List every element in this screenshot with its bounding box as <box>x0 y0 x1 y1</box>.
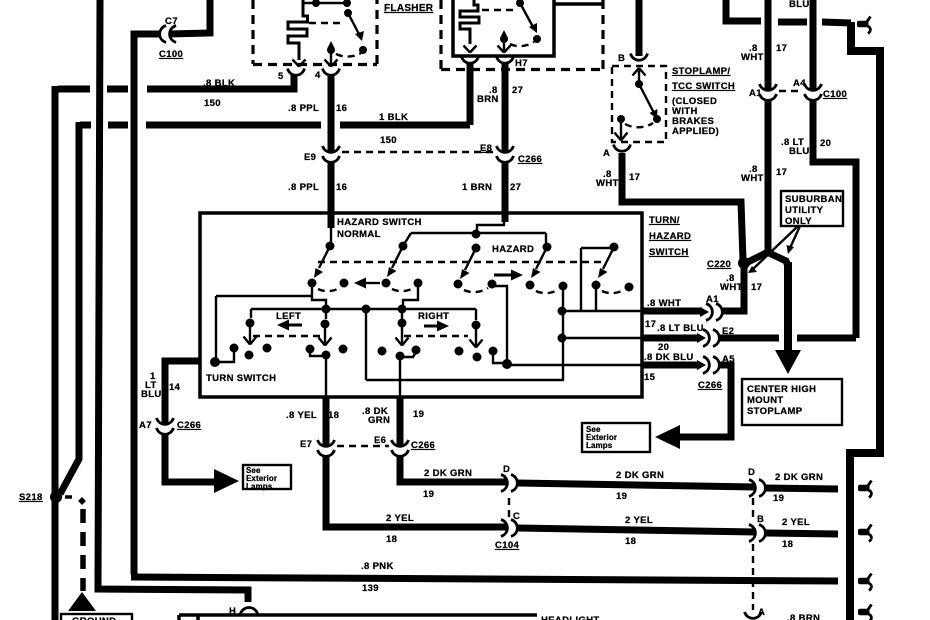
wire .8 LT BLU x=813 from top down, elbow right, down to E2 junction <box>810 0 817 91</box>
wire to B from top <box>636 0 643 56</box>
wire 1 BRN below E8 into switch box <box>502 163 509 214</box>
svg-text:C104: C104 <box>495 540 519 551</box>
svg-text:B: B <box>757 514 764 525</box>
wire L3 vertical x=101 from top to elbow at y=586 then to H drop <box>98 0 248 602</box>
turn pole L pivot dot <box>246 319 255 328</box>
node dot flasher1 bus left <box>312 0 320 7</box>
pole5 pivot dot P6 <box>610 243 619 252</box>
wire 2 DK GRN middle <box>518 483 756 487</box>
wire L2 vertical from 1 BLK elbow down, angling into S218 <box>60 122 79 494</box>
turn dashed row left <box>253 335 321 337</box>
svg-text:A7: A7 <box>139 420 152 431</box>
wire .8 BLK horizontal run y=88 <box>58 86 90 93</box>
svg-text:B: B <box>618 53 625 64</box>
big arrow down to CHMSL <box>775 350 801 374</box>
turn pole C arrow blade <box>319 328 332 346</box>
connector H into bottom box <box>240 608 258 616</box>
svg-text:C266: C266 <box>518 154 542 165</box>
wire A1 to C220 drop <box>723 308 744 315</box>
pole2 dashed arc to C3 <box>392 287 415 291</box>
svg-text:WHT: WHT <box>741 52 764 63</box>
svg-text:18: 18 <box>328 410 339 421</box>
pole4 riser elbow <box>545 233 547 245</box>
junction dot left exit <box>210 357 220 367</box>
svg-text:19: 19 <box>616 491 627 502</box>
pivot dot stoplamp <box>635 80 643 88</box>
pole2 blade <box>392 246 403 268</box>
turn pole R riser <box>401 309 403 319</box>
turn pole RR tip dot <box>473 353 482 362</box>
svg-text:139: 139 <box>362 583 379 594</box>
svg-text:HAZARD: HAZARD <box>492 244 534 255</box>
svg-text:WHT: WHT <box>741 173 764 184</box>
connector A4 <box>805 84 822 100</box>
wire E6 drop from tip through box bottom <box>399 356 401 397</box>
flasher2 element <box>460 0 479 44</box>
svg-text:17: 17 <box>776 43 787 54</box>
dashed link E9-E8 <box>342 151 494 153</box>
wire E7 down elbow right = 2 YEL <box>326 457 508 527</box>
BRN entry stub into box <box>502 214 509 222</box>
svg-text:HAZARD: HAZARD <box>649 231 691 242</box>
svg-text:C7: C7 <box>165 16 178 27</box>
off-page hook BRN (partial) <box>858 605 872 620</box>
svg-text:C100: C100 <box>159 49 183 60</box>
connector C / C104 <box>501 520 517 537</box>
wire A5 elbow down to See Exterior Lamps arrow <box>680 365 731 437</box>
turn pole R pivot dot <box>398 319 407 328</box>
wire C3 drop elbow to rail B at x=402 <box>403 283 418 309</box>
wire flasher1 top bus <box>304 2 347 4</box>
wire C8 drop to WHT exit line <box>595 285 597 311</box>
wire .8 PNK from L4 elbow to right <box>131 577 838 581</box>
pole1 dashed arc <box>318 287 341 291</box>
contact dot C2 <box>340 279 349 288</box>
wire C5 elbow to J3 <box>492 284 507 364</box>
pole5 riser down to J1 <box>580 248 582 311</box>
svg-text:18: 18 <box>625 536 636 547</box>
wire J1 to right exit .8 WHT <box>562 310 641 312</box>
svg-text:27: 27 <box>512 85 523 96</box>
lower pivot dot stoplamp <box>617 115 625 123</box>
svg-text:S218: S218 <box>19 492 43 503</box>
svg-text:C: C <box>513 511 520 522</box>
wire big CHMSL feed down <box>784 262 792 352</box>
svg-text:E6: E6 <box>374 435 386 446</box>
svg-text:C266: C266 <box>411 440 435 451</box>
contact dot C9 <box>625 283 634 292</box>
flasher element (heater coil) <box>288 0 308 60</box>
left pin lead open arrow <box>464 46 477 53</box>
pole1 pivot dot P1 <box>326 242 335 251</box>
svg-text:D: D <box>503 464 510 475</box>
connector B <box>749 525 765 542</box>
pointer arrow 2 from box to wire below C220 <box>753 226 798 269</box>
svg-text:2 DK GRN: 2 DK GRN <box>424 468 472 479</box>
svg-text:5: 5 <box>278 71 284 82</box>
svg-text:C220: C220 <box>707 259 731 270</box>
down arrow to A <box>615 119 628 141</box>
off-page hook PNK <box>858 574 872 591</box>
pole2 pivot dot P2 <box>399 242 408 251</box>
svg-text:19: 19 <box>773 493 784 504</box>
wire E2 exit <box>641 335 699 342</box>
junction dot J3 <box>502 359 512 369</box>
svg-text:17: 17 <box>776 167 787 178</box>
flasher box (dashed) <box>253 0 377 65</box>
pole1 contact dot C1 <box>308 279 317 288</box>
See Exterior Lamps box (right) <box>582 423 650 452</box>
wire from A down then right to C220 <box>622 153 743 260</box>
pole3 dashed arc <box>464 288 488 292</box>
pin 5 connector <box>288 69 305 76</box>
wire x=768 below A1 down to jog <box>765 101 772 247</box>
turn pole R tip dot <box>396 352 405 361</box>
junction dot J1 <box>558 307 567 316</box>
hazard dashed row line <box>318 261 605 263</box>
turn pole L right contact dot <box>263 344 272 353</box>
svg-text:C266: C266 <box>698 380 722 391</box>
wire J3 to right exit A5 <box>507 364 641 366</box>
rail B junction dot x=366 <box>362 305 371 314</box>
wire 1 BLK horizontal run y=123 <box>80 122 91 129</box>
svg-text:19: 19 <box>423 489 434 500</box>
wire x=366 drop to bottom elbow <box>365 309 367 380</box>
turn pole L arrow blade <box>244 327 257 345</box>
turn pole L left contact dot <box>230 344 239 353</box>
wire 2 DK GRN right <box>766 488 838 489</box>
svg-text:.8 WHT: .8 WHT <box>647 298 681 309</box>
svg-text:Lamps: Lamps <box>586 441 613 450</box>
wire stub from box left edge <box>165 361 200 425</box>
wire stub top right of flasher2 <box>554 2 603 6</box>
connector E8 / C266 <box>497 146 514 162</box>
contact dot C5 <box>488 280 497 289</box>
wire L1 vertical from .8 BLK elbow down through S218 to bottom <box>52 86 59 620</box>
pin A connector <box>614 145 631 152</box>
rail A from left vertical <box>216 295 312 297</box>
svg-text:20: 20 <box>820 138 831 149</box>
svg-text:HAZARD SWITCH: HAZARD SWITCH <box>337 217 422 228</box>
svg-text:150: 150 <box>204 98 221 109</box>
turn pole RR pivot dot <box>472 321 481 330</box>
connector C7 / C100 <box>160 26 176 43</box>
svg-text:15: 15 <box>644 372 656 383</box>
turn pole RR arrow blade <box>470 329 483 348</box>
turn pole C right contact dot <box>339 345 348 354</box>
contact dot stoplamp <box>653 115 661 123</box>
pole4 blade <box>536 247 547 269</box>
svg-text:.8 PNK: .8 PNK <box>361 561 394 572</box>
svg-text:4: 4 <box>315 70 321 81</box>
svg-text:Lamps: Lamps <box>246 482 273 491</box>
svg-text:WHT: WHT <box>596 178 619 189</box>
svg-text:RIGHT: RIGHT <box>418 311 449 322</box>
pivot return dot flasher2 + up tick <box>500 35 508 43</box>
svg-text:TURN SWITCH: TURN SWITCH <box>206 373 276 384</box>
svg-text:D: D <box>748 467 755 478</box>
svg-text:2 YEL: 2 YEL <box>782 517 810 528</box>
stoplamp box (dashed) <box>612 66 666 142</box>
turn pole L riser <box>250 309 252 318</box>
connector D (left) <box>501 475 517 492</box>
H7 pin lead + open arrow <box>498 42 511 53</box>
svg-text:16: 16 <box>336 103 347 114</box>
wire 2 YEL middle <box>518 528 756 532</box>
dashed link A1-A4 <box>779 90 802 92</box>
switch blade flasher2 <box>520 3 533 27</box>
connector A1 (top) <box>760 84 777 100</box>
svg-text:18: 18 <box>386 534 397 545</box>
up arrow inside stoplamp box <box>633 68 646 84</box>
pole2 riser diag <box>403 233 411 246</box>
turn pole R left contact dot <box>378 347 387 356</box>
pole4 contact dot C6 <box>526 281 535 290</box>
wire jog from x=768 into C220 and CHMSL branch <box>748 244 768 262</box>
pivot return dot flasher1 + up tick <box>327 46 335 54</box>
svg-text:GRN: GRN <box>368 415 390 426</box>
svg-text:2 YEL: 2 YEL <box>386 513 414 524</box>
pole2 blade end dot <box>382 279 391 288</box>
svg-text:2 YEL: 2 YEL <box>625 515 653 526</box>
splice S218 <box>50 491 62 503</box>
svg-text:E8: E8 <box>480 143 492 154</box>
dashed arc stoplamp <box>625 123 653 127</box>
connector D (right) <box>749 480 765 497</box>
svg-text:27: 27 <box>510 182 521 193</box>
svg-text:UTILITY: UTILITY <box>785 205 824 216</box>
left vertical inside box <box>215 296 217 362</box>
svg-text:STOPLAMP: STOPLAMP <box>747 406 803 417</box>
svg-text:14: 14 <box>169 382 181 393</box>
svg-text:.8 LT BLU: .8 LT BLU <box>657 323 704 334</box>
svg-text:16: 16 <box>336 182 347 193</box>
svg-text:H7: H7 <box>515 58 528 69</box>
pole4 pivot dot P5 <box>543 243 552 252</box>
wire L5 from top down to C7 elbow <box>169 0 210 34</box>
junction dot P3 <box>472 230 481 239</box>
junction dot J2 <box>558 334 567 343</box>
wire pin5 elbow to .8 BLK run <box>291 75 294 89</box>
wire C220 down then left to A1 connector <box>726 263 744 311</box>
svg-text:APPLIED): APPLIED) <box>672 126 719 137</box>
CENTER HIGH MOUNT STOPLAMP box <box>742 379 842 425</box>
connector A7 / C266 <box>157 418 174 434</box>
turn pole R right contact dot + link <box>412 346 421 355</box>
hazard right arrow <box>494 274 512 277</box>
turn pole C left contact dot + link <box>306 345 315 354</box>
svg-text:17: 17 <box>629 172 640 183</box>
contact dot flasher1 <box>359 46 367 54</box>
svg-text:17: 17 <box>751 282 762 293</box>
svg-text:A1: A1 <box>749 88 762 99</box>
svg-text:A1: A1 <box>706 294 719 305</box>
pole3 pivot dot P4 <box>472 244 481 253</box>
pole3 contact dot C4 <box>454 280 463 289</box>
wire C1 drop to rail B <box>312 283 326 309</box>
arrow into left See box <box>214 469 239 493</box>
svg-text:17: 17 <box>645 319 656 330</box>
dashed link E7-E6 <box>337 445 389 447</box>
rail B junction dot x=402 <box>398 305 407 314</box>
svg-text:ONLY: ONLY <box>785 216 812 227</box>
svg-text:HEADLIGHT: HEADLIGHT <box>541 615 600 620</box>
svg-text:STOPLAMP/: STOPLAMP/ <box>672 66 730 77</box>
pole4 dashed arc <box>536 289 559 293</box>
ground triangle <box>68 592 96 611</box>
dashed ground lead <box>65 495 72 499</box>
splice C220 <box>738 257 750 269</box>
turn pole RR right contact dot + elbow to J3 <box>489 347 498 356</box>
wire y=22 segments to hook <box>778 19 807 26</box>
svg-text:2 DK GRN: 2 DK GRN <box>616 470 664 481</box>
pin B connector <box>631 54 648 61</box>
svg-text:GROUND: GROUND <box>72 616 116 620</box>
arrow into right See box <box>655 425 680 449</box>
hazard rail y=233 <box>411 232 546 234</box>
switch blade flasher1 <box>348 13 360 36</box>
svg-text:MOUNT: MOUNT <box>747 395 784 406</box>
dashed link inside flasher1 <box>309 22 341 24</box>
svg-text:19: 19 <box>413 409 424 420</box>
off-page hook YEL <box>858 525 872 542</box>
svg-text:C100: C100 <box>823 89 847 100</box>
pole5 contact dot C8 <box>592 281 601 290</box>
svg-text:BRN: BRN <box>477 94 499 105</box>
flasher2 inner solid box <box>453 0 554 56</box>
pole5 riser elbow from P6 <box>581 247 614 249</box>
svg-text:WHT: WHT <box>720 282 743 293</box>
turn pole C pivot dot <box>321 320 330 329</box>
svg-text:A: A <box>603 148 610 159</box>
rail staircase from y=22 down right side <box>851 22 880 453</box>
pointer arrow 1 from box to wire jog <box>790 226 800 248</box>
svg-text:150: 150 <box>380 135 397 146</box>
switch pivot dot flasher1 <box>344 9 352 17</box>
turn pole RR left contact dot <box>455 347 464 356</box>
svg-text:.8 PPL: .8 PPL <box>288 103 319 114</box>
svg-text:TCC SWITCH: TCC SWITCH <box>672 81 735 92</box>
svg-text:NORMAL: NORMAL <box>337 229 381 240</box>
wire J2 to right exit E2 <box>562 337 641 339</box>
svg-text:1 BLK: 1 BLK <box>379 112 408 123</box>
svg-text:BLU: BLU <box>789 0 810 10</box>
wire A7 down, elbow right to arrow <box>165 435 215 482</box>
svg-text:.8 BLK: .8 BLK <box>203 78 235 89</box>
wire .8 WHT x=768 from top <box>765 0 772 91</box>
pole5 dashed arc <box>602 289 625 293</box>
flasher2 outer dashed box <box>441 0 603 70</box>
See Exterior Lamps box (left) <box>243 465 291 489</box>
svg-text:E9: E9 <box>304 152 316 163</box>
svg-text:BLU: BLU <box>141 389 162 400</box>
turn pole R arrow blade <box>396 327 409 346</box>
dashed link inside flasher2 <box>482 9 516 11</box>
dashed arc flasher2 <box>510 42 534 46</box>
turn pole C tip dot <box>322 351 331 360</box>
wire E6 down elbow right = 2 DK GRN <box>400 457 508 482</box>
off-page hook top right <box>857 17 871 34</box>
svg-text:1 BRN: 1 BRN <box>462 182 492 193</box>
svg-text:18: 18 <box>782 539 793 550</box>
wire 2 YEL right <box>766 533 838 534</box>
wire BRN elbow to P3 <box>477 219 504 234</box>
contact dot flasher2 <box>533 35 541 43</box>
wire .8 WHT exit to A1 connector <box>641 308 702 315</box>
connector E6 / C266 <box>392 440 409 456</box>
pole5 blade <box>603 247 614 269</box>
wire .8 PPL from pin 4 down to E9 <box>328 76 335 153</box>
flasher2 left pin connector <box>462 57 479 64</box>
svg-text:A: A <box>758 607 765 618</box>
wire from C7 left then down L4 x=137 <box>134 34 159 574</box>
turn pole RR riser elbow from rail B <box>475 309 477 320</box>
blade stoplamp <box>639 84 654 113</box>
pin 4 lead + open arrow <box>325 50 338 67</box>
pin 5 lead open arrow <box>293 60 306 67</box>
contact dot C3 <box>414 279 423 288</box>
turn dashed row right <box>404 335 468 337</box>
svg-text:.8 PPL: .8 PPL <box>288 182 319 193</box>
off-page hook DK GRN <box>858 481 872 498</box>
turn pole C riser <box>325 309 327 319</box>
svg-text:E7: E7 <box>300 439 312 450</box>
bottom box (headlight switch) top edge <box>179 613 537 617</box>
connector E7 <box>318 440 335 456</box>
svg-text:2 DK GRN: 2 DK GRN <box>775 472 823 483</box>
svg-text:TURN/: TURN/ <box>649 215 680 226</box>
pin H7 connector <box>497 57 514 64</box>
svg-text:C266: C266 <box>177 420 201 431</box>
pole3 blade <box>465 248 476 270</box>
svg-text:A4: A4 <box>793 78 806 89</box>
node dot flasher1 bus right <box>343 0 351 7</box>
wire E7 drop from tip through box bottom <box>325 355 327 397</box>
pole2 left arrow to C2 <box>366 282 380 284</box>
pin 4 connector <box>323 69 340 76</box>
pole1 blade + arrow <box>319 246 330 268</box>
wire .8 BRN from H7 down to E8 <box>502 64 509 153</box>
wire C7 drop through J1 J2 to bottom elbow <box>366 286 563 380</box>
switch pivot dot flasher2 <box>516 0 524 7</box>
rail B (turn row) <box>251 308 476 310</box>
svg-text:.8 DK BLU: .8 DK BLU <box>644 352 694 363</box>
wire 1 BLK from flasher2 left pin down and left <box>467 64 474 125</box>
svg-text:.8 YEL: .8 YEL <box>286 410 317 421</box>
wire .8 PPL below E9 into switch box <box>328 163 335 214</box>
wire E2 to right rail <box>720 335 779 342</box>
wire left contact elbow to junction <box>216 348 234 362</box>
connector E9 <box>323 146 340 162</box>
dashed link D-C <box>508 498 510 518</box>
wire A5 exit <box>641 362 699 369</box>
contact dot C7 <box>559 282 568 291</box>
svg-text:BLU: BLU <box>789 146 810 157</box>
rail B junction dot x=326 <box>322 305 331 314</box>
wire E7 drop below box <box>323 397 330 447</box>
connector A bottom right <box>745 612 762 620</box>
svg-text:FLASHER: FLASHER <box>384 3 434 14</box>
wire E6 drop below box <box>397 397 404 447</box>
dashed arc flasher1 <box>336 53 361 57</box>
svg-text:.8 BRN: .8 BRN <box>787 613 820 620</box>
GROUND box <box>61 614 132 620</box>
svg-text:CENTER HIGH: CENTER HIGH <box>747 384 816 395</box>
PPL entry stub into box <box>328 214 335 228</box>
svg-text:SWITCH: SWITCH <box>649 247 689 258</box>
dashed link D-B-A (right) <box>752 498 754 522</box>
turn pole L tip dot <box>245 351 254 360</box>
